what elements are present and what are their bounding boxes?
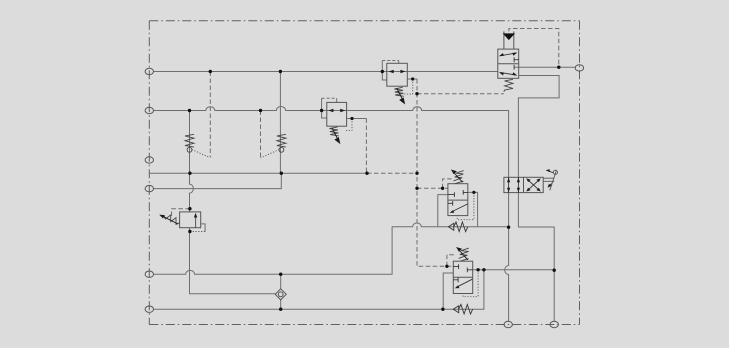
wire V2 tank loop (518, 76, 559, 178)
check right seat (dotted diagonal) (261, 150, 280, 158)
wire V2 output to port (514, 66, 575, 68)
valve V2 pilot triangle (503, 33, 515, 40)
port circles on enclosure (145, 65, 584, 328)
V4 spring (459, 248, 469, 258)
compensator valve V4 (453, 261, 472, 293)
bypass check spring busB (454, 222, 468, 232)
pilot line check right (dashed) (260, 111, 262, 158)
DV left square arrowheads (507, 178, 520, 192)
DV lever arrows (548, 171, 553, 173)
wire 4/2 valve lower-left port to bottom port, hop over busD (505, 193, 509, 322)
wire V1b output stub (347, 118, 367, 120)
wire x281 check V6 line (279, 72, 281, 174)
valve V1 spring (394, 87, 403, 96)
drain sense V4 (dotted) (463, 270, 478, 297)
pilot line R1 (dashed) (172, 209, 190, 219)
valve V2 top square diagonal with arrows (501, 53, 516, 56)
DV lever actuator stubs (543, 178, 554, 181)
valve V1b spring arrow (332, 128, 337, 138)
orifice diamond with circle (275, 289, 286, 300)
V3 bottom square port mark (448, 201, 453, 206)
DV left square flow lines (509, 177, 519, 192)
wire x190 net (check V5 line, hop over bus4) (190, 111, 276, 294)
DV lever (550, 170, 557, 190)
valve V1 spring arrow (397, 88, 402, 98)
relief valve R1 (180, 212, 201, 228)
check element right spring (277, 134, 286, 147)
bypass check spring busC (459, 304, 473, 314)
wire busD y=270 (473, 269, 555, 271)
relief valve R1 spring arrow (164, 217, 179, 224)
V4 bottom square diagonal (457, 279, 473, 287)
V3 bottom square diagonal (452, 204, 468, 212)
wire R1 right loop (201, 224, 205, 232)
valve V2 pilot-operated 3-way (498, 31, 519, 78)
V3 spring arrow (454, 173, 462, 182)
enclosure border (dash-dot frame) (149, 21, 579, 325)
valve V1 arrows (389, 70, 406, 73)
valve V2 spring (504, 79, 513, 92)
check element right ball (279, 147, 284, 152)
directional valve DV 4/2 (504, 177, 543, 192)
wire diamond risers (280, 274, 282, 309)
valve V2 bottom square diagonal with arrows (501, 73, 516, 76)
wire bus3 y=173.2 solid part (149, 172, 367, 174)
check element left spring (185, 134, 194, 147)
pilot loop top V1 (dashed) (382, 60, 398, 62)
relief valve R1 spring (164, 215, 180, 224)
valve V1b spring (329, 127, 338, 136)
wire busC y=309.2 riser to busD (153, 270, 484, 309)
wire V3 left bypass (438, 195, 448, 227)
valve V2 bottom square blocked port bar (513, 65, 515, 70)
wire busA y=274.2 with hop, riser to busB y=226.8 ending at x=508.6 (153, 223, 508, 274)
wire V1 pilot loops (solid risers) (382, 61, 398, 81)
bypass check at busB (448, 223, 453, 230)
wire bus1 y=71.5 (153, 71, 498, 73)
pilot line check left (dashed) (209, 72, 211, 158)
valve V1 pressure reducing (387, 63, 408, 86)
wire V1 output stub (407, 78, 417, 80)
wire V3 output riser (468, 192, 478, 226)
check left seat (dotted diagonal) (192, 150, 210, 158)
valve V1b arrows (328, 109, 345, 112)
wire 4/2 valve lower-right port to bottom port via x=554 (518, 193, 554, 322)
drain sense V1 (dotted) (402, 79, 412, 94)
wire V4 left bypass (443, 273, 453, 309)
pilot net from V1/V1b (dashed) (366, 79, 503, 266)
drain sense V3 (dotted) (457, 192, 474, 219)
V3 top square port marks (448, 190, 468, 197)
V4 top square port marks (453, 264, 472, 272)
wire bus4 y=188.6 to riser (153, 173, 281, 188)
compensator valve V3 (448, 184, 468, 216)
V4 bottom square port mark (453, 278, 458, 283)
wire V1b pilot loops (solid risers) (322, 98, 337, 118)
valve V1b pressure reducing (327, 102, 347, 126)
V3 spring (453, 171, 463, 181)
bypass check at busC (453, 306, 458, 313)
R1 loop bottom (dotted) (190, 231, 205, 233)
relief valve R1 arrow up (194, 213, 197, 218)
valve V2 top square blocked port (514, 57, 519, 62)
DV right square crossed arrows (528, 180, 540, 191)
check element left ball (187, 147, 192, 152)
V4 spring arrow (459, 251, 467, 260)
wire bus2 y=110.5 with hops (153, 107, 508, 178)
drain sense V1b (dotted) (346, 119, 352, 131)
pilot loop top V1b (dashed) (322, 97, 337, 99)
pilot line V2 (dashed) (509, 29, 559, 68)
